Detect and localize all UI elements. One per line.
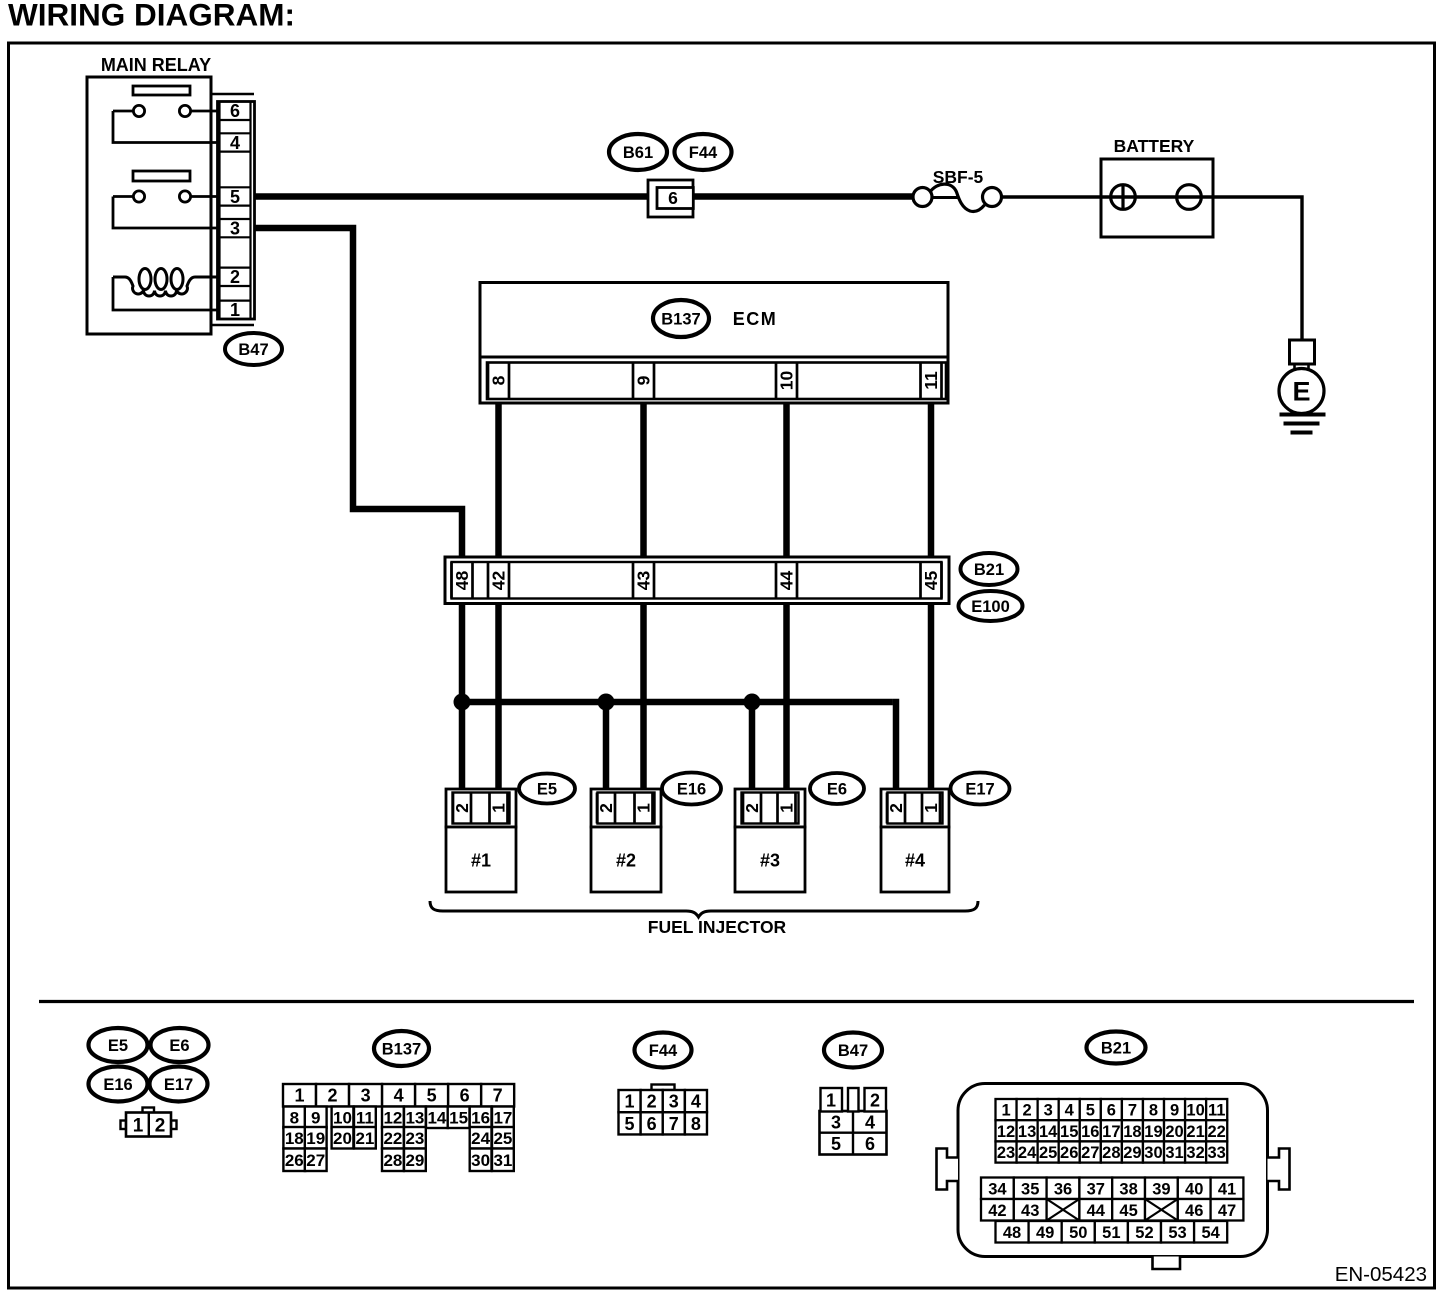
- wire: ECM pin 9 to connector pin 43: [640, 398, 647, 560]
- wire: ECM pin 11 to connector pin 45: [928, 398, 935, 560]
- svg-text:2: 2: [155, 1116, 166, 1137]
- svg-text:26: 26: [1060, 1144, 1078, 1162]
- svg-text:1: 1: [777, 803, 797, 813]
- svg-text:28: 28: [383, 1151, 402, 1170]
- connector label B137 (ECM): [653, 300, 709, 337]
- svg-text:9: 9: [634, 375, 654, 385]
- svg-text:B61: B61: [623, 144, 653, 162]
- relay contact 1 (pins 6/4): [113, 86, 218, 143]
- svg-text:E17: E17: [164, 1076, 193, 1094]
- svg-text:E16: E16: [677, 780, 706, 798]
- svg-text:18: 18: [285, 1129, 304, 1148]
- svg-text:15: 15: [449, 1108, 468, 1127]
- svg-text:E6: E6: [169, 1037, 189, 1055]
- junction node at injector 2 branch: [598, 694, 615, 711]
- connector B137 face grid (pins 1-31): [283, 1084, 514, 1171]
- svg-text:6: 6: [668, 188, 678, 208]
- svg-text:44: 44: [1087, 1202, 1106, 1220]
- svg-text:26: 26: [285, 1151, 304, 1170]
- svg-text:13: 13: [405, 1108, 424, 1127]
- svg-text:2: 2: [742, 803, 762, 813]
- svg-text:30: 30: [471, 1151, 490, 1170]
- svg-text:29: 29: [1123, 1144, 1141, 1162]
- svg-text:E5: E5: [108, 1037, 128, 1055]
- svg-text:48: 48: [452, 571, 472, 591]
- connector B47 face grid (pins 1-6): [820, 1088, 887, 1155]
- svg-text:5: 5: [1086, 1102, 1095, 1120]
- svg-text:44: 44: [777, 571, 797, 591]
- svg-text:50: 50: [1069, 1224, 1087, 1242]
- svg-text:9: 9: [311, 1108, 320, 1127]
- wire: connector pin 45 to injector 4 pin 1: [928, 601, 935, 792]
- svg-text:18: 18: [1123, 1123, 1141, 1141]
- svg-text:E6: E6: [827, 780, 847, 798]
- svg-text:1: 1: [489, 803, 509, 813]
- svg-text:12: 12: [997, 1123, 1015, 1141]
- svg-text:19: 19: [1144, 1123, 1162, 1141]
- relay contact 2 (pins 5/3): [113, 171, 218, 228]
- wire: ECM pin 8 to connector pin 42: [495, 398, 502, 560]
- svg-text:1: 1: [133, 1116, 144, 1137]
- junction node at injector 3 branch: [744, 694, 761, 711]
- fuse No.6: [648, 180, 693, 217]
- svg-text:8: 8: [489, 375, 509, 385]
- svg-text:11: 11: [356, 1108, 374, 1127]
- svg-text:17: 17: [493, 1108, 512, 1127]
- svg-text:3: 3: [669, 1092, 679, 1112]
- label ECM: [733, 309, 778, 329]
- svg-text:28: 28: [1102, 1144, 1120, 1162]
- svg-text:48: 48: [1003, 1224, 1021, 1242]
- svg-text:B21: B21: [974, 561, 1004, 579]
- svg-text:EN-05423: EN-05423: [1335, 1263, 1427, 1286]
- svg-text:B137: B137: [382, 1040, 421, 1058]
- connector F44 face grid (pins 1-8): [619, 1085, 707, 1135]
- svg-text:14: 14: [427, 1108, 446, 1127]
- connector label B21: [1087, 1032, 1146, 1064]
- svg-text:3: 3: [831, 1113, 841, 1133]
- svg-text:15: 15: [1060, 1123, 1078, 1141]
- connector label E16: [89, 1067, 148, 1102]
- svg-text:43: 43: [634, 571, 654, 591]
- svg-text:4: 4: [691, 1092, 701, 1112]
- svg-text:2: 2: [596, 803, 616, 813]
- svg-text:7: 7: [669, 1114, 679, 1134]
- svg-text:42: 42: [489, 571, 509, 591]
- connector B47 pin strip (pins 6,4,5,3,2,1): [211, 94, 255, 325]
- svg-text:1: 1: [826, 1091, 836, 1111]
- svg-text:16: 16: [1081, 1123, 1099, 1141]
- connector label E6 (injector 3): [810, 773, 864, 804]
- svg-text:35: 35: [1021, 1180, 1039, 1198]
- svg-text:2: 2: [1023, 1102, 1032, 1120]
- svg-text:54: 54: [1201, 1224, 1220, 1242]
- connector label B47 (main relay): [225, 333, 282, 365]
- svg-text:11: 11: [921, 371, 941, 390]
- figure number EN-05423: [1335, 1263, 1427, 1286]
- connector label E17 (injector 4): [951, 773, 1010, 805]
- svg-text:12: 12: [383, 1108, 402, 1127]
- svg-text:32: 32: [1186, 1144, 1204, 1162]
- svg-text:B47: B47: [238, 341, 268, 359]
- svg-text:27: 27: [1081, 1144, 1099, 1162]
- connector label B21 (strip): [961, 553, 1018, 585]
- svg-text:45: 45: [1119, 1202, 1137, 1220]
- wire: connector pin 43 to injector 2 pin 1: [640, 601, 647, 792]
- svg-text:#4: #4: [905, 851, 925, 871]
- wire: ECM pin 10 to connector pin 44: [783, 398, 790, 560]
- svg-text:FUEL INJECTOR: FUEL INJECTOR: [648, 917, 787, 937]
- svg-text:1: 1: [625, 1092, 635, 1112]
- junction node at injector 1 branch: [454, 694, 471, 711]
- svg-text:37: 37: [1087, 1180, 1105, 1198]
- svg-text:49: 49: [1036, 1224, 1054, 1242]
- svg-text:51: 51: [1102, 1224, 1120, 1242]
- svg-text:1: 1: [230, 300, 240, 320]
- wire: main relay pin 3 down and across to connector pin 48: [253, 228, 462, 560]
- connector B21 face pins 1-33: [996, 1099, 1228, 1163]
- svg-text:WIRING DIAGRAM:: WIRING DIAGRAM:: [8, 0, 295, 33]
- connector label E6: [151, 1028, 209, 1062]
- svg-text:3: 3: [1044, 1102, 1053, 1120]
- svg-text:1: 1: [295, 1086, 305, 1106]
- connector label B47: [824, 1033, 882, 1068]
- svg-text:E17: E17: [965, 780, 994, 798]
- svg-text:14: 14: [1039, 1123, 1058, 1141]
- svg-text:31: 31: [493, 1151, 512, 1170]
- connector B21 face housing: [937, 1084, 1290, 1270]
- svg-text:1: 1: [921, 803, 941, 813]
- wire: fusible link to battery positive terminal and negative to ground: [1001, 197, 1302, 340]
- svg-text:6: 6: [1107, 1102, 1116, 1120]
- svg-text:39: 39: [1152, 1180, 1170, 1198]
- svg-text:8: 8: [290, 1108, 299, 1127]
- svg-text:10: 10: [333, 1108, 352, 1127]
- svg-text:B137: B137: [661, 310, 700, 328]
- svg-text:4: 4: [865, 1113, 875, 1133]
- svg-text:27: 27: [306, 1151, 325, 1170]
- svg-text:2: 2: [328, 1086, 338, 1106]
- svg-text:10: 10: [1186, 1102, 1204, 1120]
- svg-text:21: 21: [1186, 1123, 1204, 1141]
- fusible link SBF-5: [913, 167, 1002, 211]
- injector #2 with connector (pins 2,1): [591, 789, 661, 892]
- svg-text:33: 33: [1207, 1144, 1225, 1162]
- svg-text:24: 24: [471, 1129, 490, 1148]
- svg-text:2: 2: [647, 1092, 657, 1112]
- svg-text:2: 2: [870, 1091, 880, 1111]
- svg-text:BATTERY: BATTERY: [1114, 136, 1195, 156]
- svg-text:7: 7: [493, 1086, 503, 1106]
- svg-text:4: 4: [1065, 1102, 1075, 1120]
- svg-text:43: 43: [1021, 1202, 1039, 1220]
- svg-text:2: 2: [230, 267, 240, 287]
- svg-text:F44: F44: [689, 144, 718, 162]
- svg-text:5: 5: [230, 187, 240, 207]
- svg-text:19: 19: [306, 1129, 325, 1148]
- svg-text:6: 6: [460, 1086, 470, 1106]
- svg-text:2: 2: [886, 803, 906, 813]
- svg-text:38: 38: [1119, 1180, 1137, 1198]
- connector label E100 (strip): [959, 591, 1023, 621]
- svg-text:10: 10: [777, 371, 797, 391]
- svg-text:ECM: ECM: [733, 309, 778, 329]
- svg-text:3: 3: [230, 219, 240, 239]
- svg-text:47: 47: [1218, 1202, 1236, 1220]
- connector label E5: [89, 1028, 148, 1062]
- svg-text:20: 20: [1165, 1123, 1183, 1141]
- svg-text:4: 4: [230, 133, 240, 153]
- injector #3 with connector (pins 2,1): [735, 789, 805, 892]
- svg-text:7: 7: [1128, 1102, 1137, 1120]
- connector label E17: [150, 1067, 208, 1102]
- connector B21 face pins 34-47: [981, 1178, 1243, 1221]
- svg-text:#3: #3: [760, 851, 780, 871]
- svg-text:45: 45: [921, 571, 941, 591]
- svg-text:13: 13: [1018, 1123, 1036, 1141]
- svg-text:29: 29: [405, 1151, 424, 1170]
- injector connector face (pins 1,2): [121, 1108, 177, 1137]
- wire: connector pin 42 to injector 1 pin 1: [495, 601, 502, 792]
- svg-text:8: 8: [1149, 1102, 1158, 1120]
- connector label B137: [374, 1031, 429, 1066]
- svg-text:E100: E100: [971, 598, 1010, 616]
- svg-text:41: 41: [1218, 1180, 1236, 1198]
- svg-text:E: E: [1292, 377, 1310, 407]
- svg-text:2: 2: [452, 803, 472, 813]
- injector #1 with connector (pins 2,1): [446, 789, 516, 892]
- wire: ground bus to injector pins 2: [462, 699, 896, 792]
- svg-text:5: 5: [831, 1134, 841, 1154]
- svg-text:6: 6: [230, 101, 240, 121]
- svg-text:9: 9: [1170, 1102, 1179, 1120]
- wire: main relay pin 5 to fuse to fusible link SBF-5: [253, 193, 914, 200]
- svg-text:24: 24: [1018, 1144, 1037, 1162]
- connector B21/E100 pin strip (pins 48,42,43,44,45): [445, 557, 949, 604]
- ECM B137 box: [480, 283, 948, 404]
- relay MAIN RELAY box: [87, 77, 211, 334]
- svg-text:53: 53: [1168, 1224, 1186, 1242]
- svg-text:30: 30: [1144, 1144, 1162, 1162]
- ECM connector pin strip (pins 8,9,10,11): [487, 363, 946, 400]
- svg-text:1: 1: [634, 803, 654, 813]
- connector B21 face pins 48-54: [996, 1221, 1228, 1243]
- svg-text:B47: B47: [838, 1042, 868, 1060]
- svg-text:52: 52: [1135, 1224, 1153, 1242]
- svg-text:40: 40: [1185, 1180, 1203, 1198]
- wire: connector pin 44 to injector 3 pin 1: [783, 601, 790, 792]
- svg-text:6: 6: [865, 1134, 875, 1154]
- injector #4 with connector (pins 2,1): [881, 789, 949, 892]
- svg-text:6: 6: [647, 1114, 657, 1134]
- svg-text:E5: E5: [537, 780, 557, 798]
- title WIRING DIAGRAM: [8, 0, 295, 33]
- svg-text:25: 25: [1039, 1144, 1057, 1162]
- svg-text:25: 25: [493, 1129, 512, 1148]
- ground E: [1279, 340, 1326, 433]
- svg-text:23: 23: [405, 1129, 424, 1148]
- svg-text:17: 17: [1102, 1123, 1120, 1141]
- svg-text:16: 16: [471, 1108, 490, 1127]
- svg-text:46: 46: [1185, 1202, 1203, 1220]
- svg-text:3: 3: [361, 1086, 371, 1106]
- battery: [1101, 136, 1213, 237]
- svg-text:42: 42: [988, 1202, 1006, 1220]
- brace FUEL INJECTOR: [430, 901, 978, 937]
- divider line: [39, 1000, 1414, 1003]
- svg-text:20: 20: [333, 1129, 352, 1148]
- wire: connector pin 48 down through junction to injector 1 pin 2: [459, 601, 466, 792]
- connector label E5 (injector 1): [519, 774, 575, 804]
- relay coil (pins 2/1): [113, 269, 218, 311]
- connector label E16 (injector 2): [662, 773, 721, 805]
- svg-text:E16: E16: [103, 1076, 132, 1094]
- connector label F44: [635, 1033, 692, 1068]
- svg-text:11: 11: [1208, 1102, 1225, 1120]
- svg-text:F44: F44: [649, 1042, 678, 1060]
- svg-text:B21: B21: [1101, 1039, 1131, 1057]
- svg-text:21: 21: [355, 1129, 374, 1148]
- svg-text:5: 5: [427, 1086, 437, 1106]
- svg-text:34: 34: [988, 1180, 1007, 1198]
- label MAIN RELAY: [101, 55, 211, 75]
- svg-text:22: 22: [383, 1129, 402, 1148]
- svg-text:#1: #1: [471, 851, 491, 871]
- svg-text:36: 36: [1054, 1180, 1072, 1198]
- svg-text:5: 5: [625, 1114, 635, 1134]
- connector label B61: [609, 134, 667, 170]
- svg-text:31: 31: [1165, 1144, 1183, 1162]
- connector label F44 (fuse box): [675, 134, 732, 170]
- svg-text:22: 22: [1207, 1123, 1225, 1141]
- svg-text:8: 8: [691, 1114, 701, 1134]
- svg-text:1: 1: [1001, 1102, 1010, 1120]
- svg-text:MAIN RELAY: MAIN RELAY: [101, 55, 211, 75]
- svg-text:#2: #2: [616, 851, 636, 871]
- svg-text:23: 23: [997, 1144, 1015, 1162]
- svg-text:4: 4: [394, 1086, 404, 1106]
